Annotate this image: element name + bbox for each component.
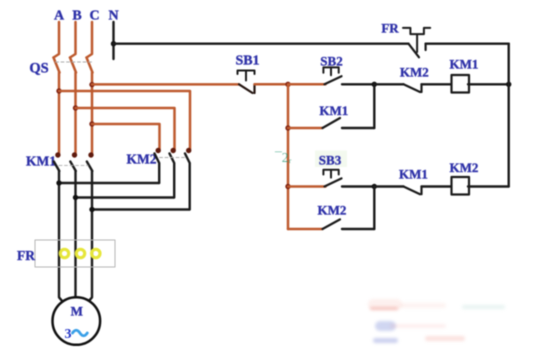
contactor KM1 pole A blade: [54, 162, 60, 172]
wire row D riser: [373, 187, 375, 230]
wire phase C upper: [87, 22, 93, 58]
wire phase C middle: [91, 73, 94, 154]
thermal relay FR heater element B: [76, 249, 84, 257]
svg-text:KM2: KM2: [450, 160, 479, 175]
contactor KM2 pole 1 blade: [155, 154, 160, 184]
node right bus row A: [506, 82, 511, 87]
wire row B to riser: [342, 127, 374, 129]
contact KM1 NO holding: [323, 118, 341, 128]
breaker QS pole C blade: [87, 58, 93, 73]
contactor KM1 pole B terminal: [72, 152, 77, 157]
contactor KM1 pole C blade: [87, 162, 93, 172]
wire SB3 to junction: [342, 185, 374, 187]
node N bus junction: [111, 41, 116, 46]
contact KM2 NO holding: [323, 219, 341, 229]
wire row B from bus: [288, 127, 323, 130]
button SB3 NO blade: [325, 178, 342, 186]
wire KM1 pole C output: [87, 171, 93, 304]
svg-text:KM1: KM1: [450, 57, 479, 72]
svg-text:SB2: SB2: [320, 54, 342, 69]
wire coil KM1 to right bus: [468, 83, 509, 85]
svg-text:SB3: SB3: [319, 153, 342, 168]
svg-text:SB1: SB1: [235, 54, 259, 69]
node KM2 feed tap on phase C: [89, 121, 94, 126]
watermark pink line row2: [390, 324, 446, 328]
wire control feed C to SB1: [92, 83, 239, 86]
wire coil KM2 to right bus: [468, 185, 509, 187]
node control tap on phase C: [89, 82, 94, 87]
wire row A junction to KM2 NC: [374, 83, 403, 85]
svg-text:QS: QS: [29, 61, 48, 77]
wire right bus vertical: [508, 44, 510, 187]
svg-text:M: M: [71, 304, 83, 319]
wire row D from bus: [288, 228, 323, 231]
button SB3 actuator: [323, 170, 338, 178]
watermark green highlight over SB3: [315, 151, 347, 168]
watermark pink tail row1: [400, 303, 446, 308]
wire KM2 pole 3 output to phase C: [92, 208, 190, 210]
wire KM2 pole 1 output to phase A: [59, 182, 159, 184]
node row A junction: [372, 82, 377, 87]
wire phase B middle: [74, 73, 77, 154]
svg-text:C: C: [89, 9, 99, 24]
contactor KM1 pole B blade: [70, 162, 76, 172]
wire N stub: [112, 22, 114, 59]
watermark red line: [370, 307, 398, 310]
wire control bus vertical: [287, 84, 290, 229]
contactor KM2 pole 1 terminal: [156, 148, 161, 153]
svg-text:KM1: KM1: [26, 154, 56, 169]
contactor KM1 pole C terminal: [88, 152, 93, 157]
node crossover C: [89, 207, 94, 212]
contactor KM2 linkage: [160, 157, 188, 159]
thermal relay FR heater element A: [60, 249, 68, 257]
wire SB2 to junction: [342, 83, 374, 85]
wire phase A middle: [58, 73, 61, 154]
contactor KM2 pole 2 terminal: [171, 148, 176, 153]
contactor KM2 pole 3 terminal: [186, 148, 191, 153]
wire feed C to KM2 left pole: [92, 124, 160, 149]
svg-text:KM2: KM2: [127, 152, 157, 167]
svg-text:¯2ᵣ: ¯2ᵣ: [274, 150, 292, 165]
button SB2 actuator: [323, 67, 338, 75]
wire phase B upper: [70, 22, 76, 58]
wire row C junction to KM1 NC: [374, 185, 403, 187]
coil KM2: [452, 177, 470, 195]
thermal relay FR heater box: [35, 240, 115, 267]
wire KM1 pole B output: [74, 171, 76, 299]
wire KM1 pole A output: [59, 171, 65, 304]
watermark pink smudge: [368, 299, 402, 310]
wire FR to right bus: [426, 43, 509, 45]
wire phase A upper: [54, 22, 60, 58]
watermark teal dashes: [462, 305, 505, 309]
wire KM1 NC to coil KM2: [422, 185, 452, 187]
wire KM2 pole 2 output to phase B: [76, 196, 175, 198]
contactor KM1 linkage: [59, 164, 88, 166]
relay FR trip actuator: [403, 28, 430, 52]
node row C tap: [285, 184, 290, 189]
wire KM2 NC to coil KM1: [422, 83, 452, 85]
breaker QS pole B blade: [70, 58, 76, 73]
node KM2 feed tap on phase B: [73, 105, 78, 110]
svg-text:KM2: KM2: [318, 203, 347, 218]
wire row A from bus to SB2: [288, 83, 326, 86]
wire SB1 to control vertical: [255, 83, 289, 86]
contactor KM1 pole A terminal: [55, 152, 60, 157]
contact KM1 NC interlock: [404, 187, 422, 195]
svg-text:FR: FR: [17, 248, 35, 263]
svg-text:B: B: [72, 9, 81, 24]
thermal relay FR heater element C: [92, 249, 100, 257]
wire feed B to KM2 middle pole: [76, 108, 175, 149]
button SB1 NC blade: [239, 84, 255, 93]
button SB1 actuator: [238, 71, 255, 81]
wire row D to riser: [342, 228, 374, 230]
contact KM2 NC interlock: [404, 84, 422, 92]
wire N bus to FR: [114, 43, 409, 45]
node KM2 feed tap on phase A: [56, 88, 61, 93]
node row B tap: [285, 125, 290, 130]
coil KM1: [452, 75, 470, 93]
button SB2 NO blade: [325, 76, 342, 84]
svg-text:3: 3: [65, 327, 72, 342]
watermark blue smudge: [375, 321, 396, 331]
wire row B riser: [373, 84, 375, 128]
watermark blue smear: [373, 338, 398, 343]
motor tilde symbol: [73, 330, 88, 336]
wire feed A to KM2 right pole: [59, 91, 190, 149]
svg-text:KM2: KM2: [400, 65, 429, 80]
contact FR NC blade: [409, 44, 426, 58]
svg-text:FR: FR: [381, 21, 399, 36]
breaker QS linkage: [56, 61, 95, 63]
motor M circle: [53, 297, 101, 345]
wire row C from bus to SB3: [288, 185, 326, 188]
contactor KM2 pole 2 blade: [170, 154, 175, 198]
svg-text:KM1: KM1: [319, 103, 348, 118]
contactor KM2 pole 3 blade: [185, 154, 190, 210]
breaker QS pole A blade: [54, 58, 60, 73]
node row C junction: [372, 184, 377, 189]
watermark red dashes: [425, 336, 465, 341]
node crossover A: [56, 180, 61, 185]
svg-text:KM1: KM1: [399, 167, 428, 182]
node control vertical top: [285, 82, 290, 87]
node crossover B: [73, 195, 78, 200]
